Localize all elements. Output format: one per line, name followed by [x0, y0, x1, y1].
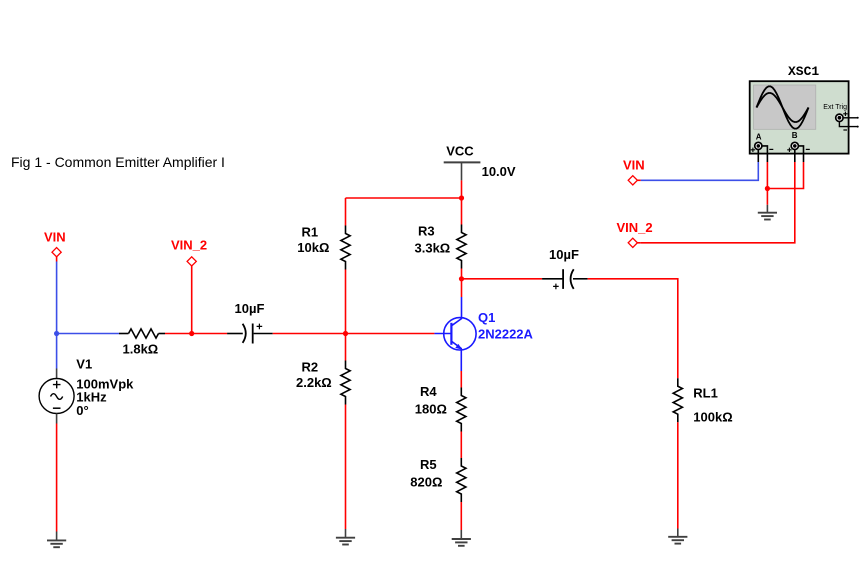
svg-text:3.3kΩ: 3.3kΩ	[415, 241, 451, 256]
svg-text:0°: 0°	[76, 403, 88, 418]
junction VIN_2	[189, 331, 194, 336]
wire B- to junction	[767, 162, 803, 189]
svg-text:B: B	[792, 131, 798, 140]
resistor R3	[457, 225, 466, 269]
wire VCC to R3	[461, 198, 463, 225]
wire VIN to V1 (blue)	[56, 262, 58, 369]
junction collector node	[459, 276, 464, 281]
junction scope ground	[765, 186, 770, 191]
wire 1.8k to VIN_2 node	[165, 333, 192, 335]
junction VCC rail	[459, 195, 464, 200]
wire R4 to R5	[460, 432, 462, 459]
wire B+ to VIN_2	[641, 162, 795, 243]
wire node to 1.8k resistor (blue)	[57, 333, 119, 335]
svg-text:R3: R3	[418, 224, 435, 239]
wire C1 to divider node	[273, 333, 346, 335]
wire R5 to ground	[460, 502, 462, 530]
wire emitter to R4	[460, 371, 462, 388]
node VIN_2 (right)	[617, 220, 653, 247]
channel A pin stubs	[758, 146, 767, 162]
ground (scope)	[758, 205, 777, 220]
wire V1 to ground	[56, 424, 58, 532]
svg-text:Ext Trig: Ext Trig	[823, 104, 847, 111]
R1 labels	[297, 225, 329, 256]
ground (R5)	[452, 530, 471, 546]
wire A+ to VIN (blue)	[641, 162, 759, 180]
junction base node	[343, 331, 348, 336]
svg-text:XSC1: XSC1	[788, 64, 819, 79]
svg-text:1.8kΩ: 1.8kΩ	[123, 342, 159, 357]
ground (R2)	[336, 529, 355, 545]
wire RL1 to ground	[677, 422, 679, 528]
R4 labels	[415, 384, 447, 417]
node VIN (right)	[623, 158, 645, 185]
power VCC symbol	[444, 144, 481, 181]
Ext Trig pin wires	[839, 117, 858, 128]
svg-text:180Ω: 180Ω	[415, 402, 447, 417]
wire collector node to C2	[462, 278, 543, 280]
svg-text:VCC: VCC	[446, 144, 474, 159]
Ext Trig connector	[836, 112, 848, 130]
channel B connector	[787, 131, 810, 152]
resistor RL1	[673, 378, 682, 422]
wire top rail to R1	[345, 198, 347, 226]
svg-text:Fig 1 - Common Emitter Amplifi: Fig 1 - Common Emitter Amplifier I	[11, 154, 225, 170]
AC source V1	[39, 369, 74, 424]
wire VCC to junction	[461, 180, 463, 198]
resistor R5	[457, 458, 466, 502]
wire R3 to collector node	[461, 269, 463, 279]
svg-text:RL1: RL1	[693, 386, 718, 401]
channel A connector	[751, 132, 774, 152]
wire top rail (R1 to VCC)	[346, 197, 462, 199]
wire R2 to ground	[345, 405, 347, 530]
svg-text:VIN: VIN	[623, 158, 645, 173]
svg-text:10µF: 10µF	[549, 247, 579, 262]
transistor Q1 2N2222A	[434, 297, 476, 371]
capacitor C1 10uF (input)	[227, 324, 273, 344]
svg-text:R2: R2	[302, 360, 319, 375]
oscilloscope screen	[754, 85, 816, 129]
junction dot (blue)	[54, 331, 59, 336]
svg-text:VIN_2: VIN_2	[171, 238, 207, 253]
svg-text:VIN: VIN	[44, 230, 66, 245]
svg-text:10.0V: 10.0V	[482, 164, 516, 179]
C2 value label	[549, 247, 579, 262]
wire base node to Q1 base	[346, 333, 435, 335]
C1 value label	[235, 301, 265, 316]
svg-text:2N2222A: 2N2222A	[478, 327, 534, 342]
channel B pin stubs	[795, 146, 804, 162]
wire R1 to base node	[345, 270, 347, 334]
svg-text:R5: R5	[420, 457, 437, 472]
wire VIN_2 drop	[191, 266, 193, 334]
svg-text:R4: R4	[420, 384, 437, 399]
resistor R4	[457, 388, 466, 432]
R5 labels	[410, 457, 442, 490]
svg-text:10µF: 10µF	[235, 301, 265, 316]
svg-text:820Ω: 820Ω	[410, 475, 442, 490]
instrument label XSC1	[788, 64, 819, 79]
node VIN_2 (left)	[171, 238, 207, 267]
VCC value 10.0V	[482, 164, 516, 179]
resistor R1	[341, 226, 350, 270]
wire VIN_2 to C1	[192, 333, 227, 335]
wire A- to ground	[766, 162, 768, 205]
wire collector node down	[461, 279, 463, 297]
resistor 1.8k (series input)	[119, 329, 165, 338]
wire base node to R2	[345, 334, 347, 361]
svg-text:A: A	[756, 132, 762, 141]
node VIN (left)	[44, 230, 66, 262]
svg-text:VIN_2: VIN_2	[617, 220, 653, 235]
Q1 labels	[478, 310, 534, 342]
R2 labels	[296, 360, 332, 391]
svg-text:R1: R1	[302, 225, 319, 240]
Ext Trig label	[823, 104, 847, 111]
1.8k value label	[123, 342, 159, 357]
svg-text:2.2kΩ: 2.2kΩ	[296, 375, 332, 390]
oscilloscope XSC1 body	[750, 81, 849, 153]
V1 value labels	[76, 357, 134, 419]
svg-text:V1: V1	[76, 357, 92, 372]
svg-text:Q1: Q1	[478, 310, 495, 325]
ground (RL1)	[668, 529, 687, 544]
svg-text:100kΩ: 100kΩ	[693, 410, 732, 425]
svg-text:10kΩ: 10kΩ	[297, 240, 329, 255]
ground (V1)	[47, 532, 66, 548]
R3 labels	[415, 224, 451, 256]
wire C2 to RL1	[588, 279, 678, 378]
capacitor C2 10uF (output)	[542, 269, 588, 289]
RL1 labels	[693, 386, 732, 425]
resistor R2	[341, 361, 350, 405]
